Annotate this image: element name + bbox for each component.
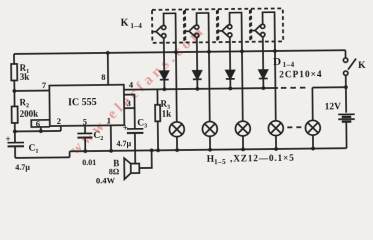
- svg-text:0.01: 0.01: [82, 158, 96, 167]
- switch K: [344, 50, 346, 58]
- node R3 rail junction: [156, 148, 160, 152]
- wire upper contact loop: [164, 13, 176, 52]
- wire R1 to node: [13, 80, 15, 90]
- svg-text:1: 1: [107, 115, 111, 125]
- node pin6 stub junction: [39, 129, 43, 133]
- watermark www.elecfans.com: [67, 22, 209, 158]
- wire bus pin4/diodes: [124, 88, 278, 90]
- lever K1: [152, 26, 162, 37]
- capacitor C1: [14, 131, 16, 142]
- resistor R1: [11, 64, 17, 81]
- wire battery to rail: [345, 122, 347, 149]
- speaker B: [131, 164, 140, 174]
- svg-text:6: 6: [36, 119, 40, 129]
- svg-text:2: 2: [57, 116, 61, 126]
- svg-text:5: 5: [83, 117, 87, 127]
- wire R2 to node2: [14, 123, 16, 131]
- node pin1 rail junction: [109, 149, 113, 153]
- IC U1 555 timer body: [49, 85, 124, 126]
- wire top rail: [14, 50, 345, 54]
- relay contacts internals + diodes + lamps (4 branches): [152, 11, 357, 152]
- node speaker rail junction: [150, 148, 154, 152]
- pin 3 tab: [124, 95, 135, 109]
- contact circles K1: [162, 25, 166, 29]
- wire step riser: [69, 151, 71, 157]
- diode D1: [160, 71, 169, 79]
- resistor R3: [156, 89, 158, 104]
- svg-text:200k: 200k: [20, 109, 39, 119]
- wire pins 2-6 horizontal: [15, 130, 61, 133]
- node R2/C1/pin2 junction: [13, 130, 17, 134]
- wire left column top (rail to R1): [13, 54, 15, 64]
- svg-text:+: +: [5, 134, 10, 144]
- relay contact K3 box: [218, 9, 250, 42]
- capacitor C3: [127, 128, 143, 130]
- relay contact K1 box: [152, 10, 184, 43]
- dashes between lamp4 and lamp5: [287, 126, 302, 128]
- wire lamp5 drop from bus: [311, 88, 313, 121]
- wire pin 7: [14, 90, 49, 92]
- svg-text:3: 3: [126, 98, 130, 108]
- wire lamp1 bottom: [176, 137, 178, 150]
- wire speaker right: [139, 150, 152, 168]
- wire pin 3 down: [134, 108, 136, 129]
- svg-text:4.7µ: 4.7µ: [15, 163, 30, 172]
- wire bottom-left rail segment: [15, 156, 69, 159]
- node R1/R2 junction: [12, 89, 16, 93]
- svg-text:4.7µ: 4.7µ: [116, 139, 131, 148]
- wire lamp1 drop: [175, 52, 178, 122]
- lamp H1: [169, 122, 184, 137]
- battery 12V: [338, 113, 354, 115]
- wire pin 1: [110, 125, 112, 150]
- node lamp1 rail junction: [174, 50, 178, 54]
- lamp H5: [305, 120, 320, 135]
- wire pin 8: [107, 53, 109, 85]
- node bus/K junction: [344, 85, 348, 89]
- pin 6 tab: [31, 120, 50, 127]
- wire pin6 stub: [40, 127, 42, 131]
- relay contact K2, diode D2, lamp H2 branch: [185, 13, 217, 152]
- node pin8 rail junction: [106, 51, 110, 55]
- wire node to R2: [13, 91, 15, 106]
- wire pin 5 stub: [84, 126, 86, 134]
- svg-text:3k: 3k: [20, 72, 30, 82]
- svg-text:12V: 12V: [325, 102, 342, 112]
- relay contact K2 box: [185, 9, 217, 42]
- capacitor C2: [77, 132, 92, 134]
- svg-text:1k: 1k: [162, 109, 172, 119]
- wire bottom rail: [70, 148, 347, 151]
- resistor R2: [12, 106, 18, 123]
- wire lower contact to diode: [163, 37, 165, 71]
- node D1 bus junction: [162, 87, 166, 91]
- wire lamp5 bottom: [312, 135, 314, 148]
- node lamp5 rail junction: [311, 147, 315, 151]
- wire pin2 riser: [60, 126, 62, 131]
- svg-text:0.4W: 0.4W: [96, 175, 116, 185]
- svg-text:K: K: [358, 61, 366, 71]
- svg-text:8: 8: [101, 72, 105, 82]
- relay contact K4, diode D4, lamp H4 branch: [251, 12, 283, 151]
- svg-text:IC 555: IC 555: [68, 97, 97, 108]
- svg-text:2CP10×4: 2CP10×4: [279, 70, 322, 80]
- svg-text:+: +: [123, 123, 128, 133]
- node C2 rail junction: [83, 149, 87, 153]
- relay contact K4 box: [251, 8, 283, 41]
- node lamp1 rail junction bottom: [175, 148, 179, 152]
- relay contact K3, diode D3, lamp H3 branch: [218, 12, 250, 151]
